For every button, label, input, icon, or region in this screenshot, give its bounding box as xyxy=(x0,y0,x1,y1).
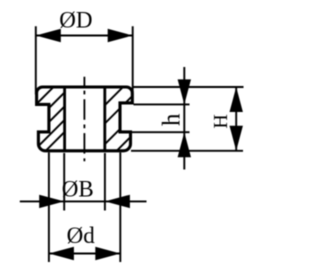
Ød arrowhead right xyxy=(95,247,120,260)
svg-text:Ød: Ød xyxy=(67,223,96,248)
h extension line lower (groove bottom) xyxy=(131,131,190,133)
h arrowhead lower (points up) xyxy=(178,132,191,157)
H extension line bottom xyxy=(131,150,243,152)
ØD arrowhead right xyxy=(108,29,133,42)
ØD arrowhead left xyxy=(36,29,61,42)
grommet outer profile (top flange, groove, bottom flange) xyxy=(37,87,133,151)
Ød dimension line xyxy=(49,253,120,255)
h dimension line xyxy=(183,67,185,170)
vertical centerline (dash-dot) xyxy=(83,77,85,162)
h arrowhead upper (points down) xyxy=(178,79,191,104)
H extension line top xyxy=(133,86,244,88)
ØD extension line left xyxy=(35,26,37,94)
svg-text:H: H xyxy=(210,114,232,128)
Ød extension line right xyxy=(119,153,121,263)
ØD extension line right xyxy=(132,26,134,92)
ØB arrowhead left (points right) xyxy=(39,195,64,208)
svg-text:h: h xyxy=(158,113,185,126)
H arrowhead upper (points up) xyxy=(230,87,243,112)
bore left edge xyxy=(63,87,66,151)
H dimension line xyxy=(235,87,237,151)
section hatching, right half of grommet xyxy=(50,80,188,160)
ØB extension line left xyxy=(63,153,65,211)
Ød arrowhead left xyxy=(49,247,74,260)
bore right edge xyxy=(103,87,106,151)
h extension line upper (flange underside) xyxy=(134,103,190,105)
svg-text:ØD: ØD xyxy=(59,7,92,32)
ØD dimension line xyxy=(36,35,133,37)
section hatching, left half of grommet xyxy=(0,80,117,160)
svg-text:ØB: ØB xyxy=(62,177,94,202)
ØB dimension line xyxy=(20,200,147,202)
ØB extension line right xyxy=(104,153,106,211)
ØB arrowhead right (points left) xyxy=(105,195,130,208)
Ød extension line left xyxy=(48,153,50,263)
H arrowhead lower (points down) xyxy=(230,126,243,151)
